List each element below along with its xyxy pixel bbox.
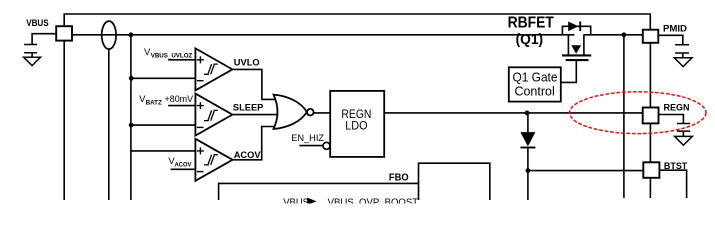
svg-text:BATZ: BATZ [146,99,162,106]
svg-text:Q1 Gate: Q1 Gate [513,71,558,85]
svg-text:PMID: PMID [663,23,687,33]
svg-text:FBO: FBO [389,171,409,183]
svg-text:ACOV: ACOV [234,150,262,160]
svg-text:VBUS_UVLOZ: VBUS_UVLOZ [151,53,193,60]
svg-text:(Q1): (Q1) [516,32,544,48]
svg-text:LDO: LDO [345,119,367,133]
svg-text:ACOV: ACOV [175,161,192,168]
svg-text:+80mV: +80mV [165,94,194,105]
svg-text:EN_HIZ: EN_HIZ [291,133,324,144]
svg-text:RBFET: RBFET [508,14,554,31]
svg-text:VBUS: VBUS [26,18,49,28]
svg-text:UVLO: UVLO [234,57,260,67]
svg-text:BTST: BTST [664,161,688,171]
svg-text:REGN: REGN [664,102,690,112]
svg-text:Control: Control [514,84,554,98]
svg-text:SLEEP: SLEEP [233,103,263,113]
